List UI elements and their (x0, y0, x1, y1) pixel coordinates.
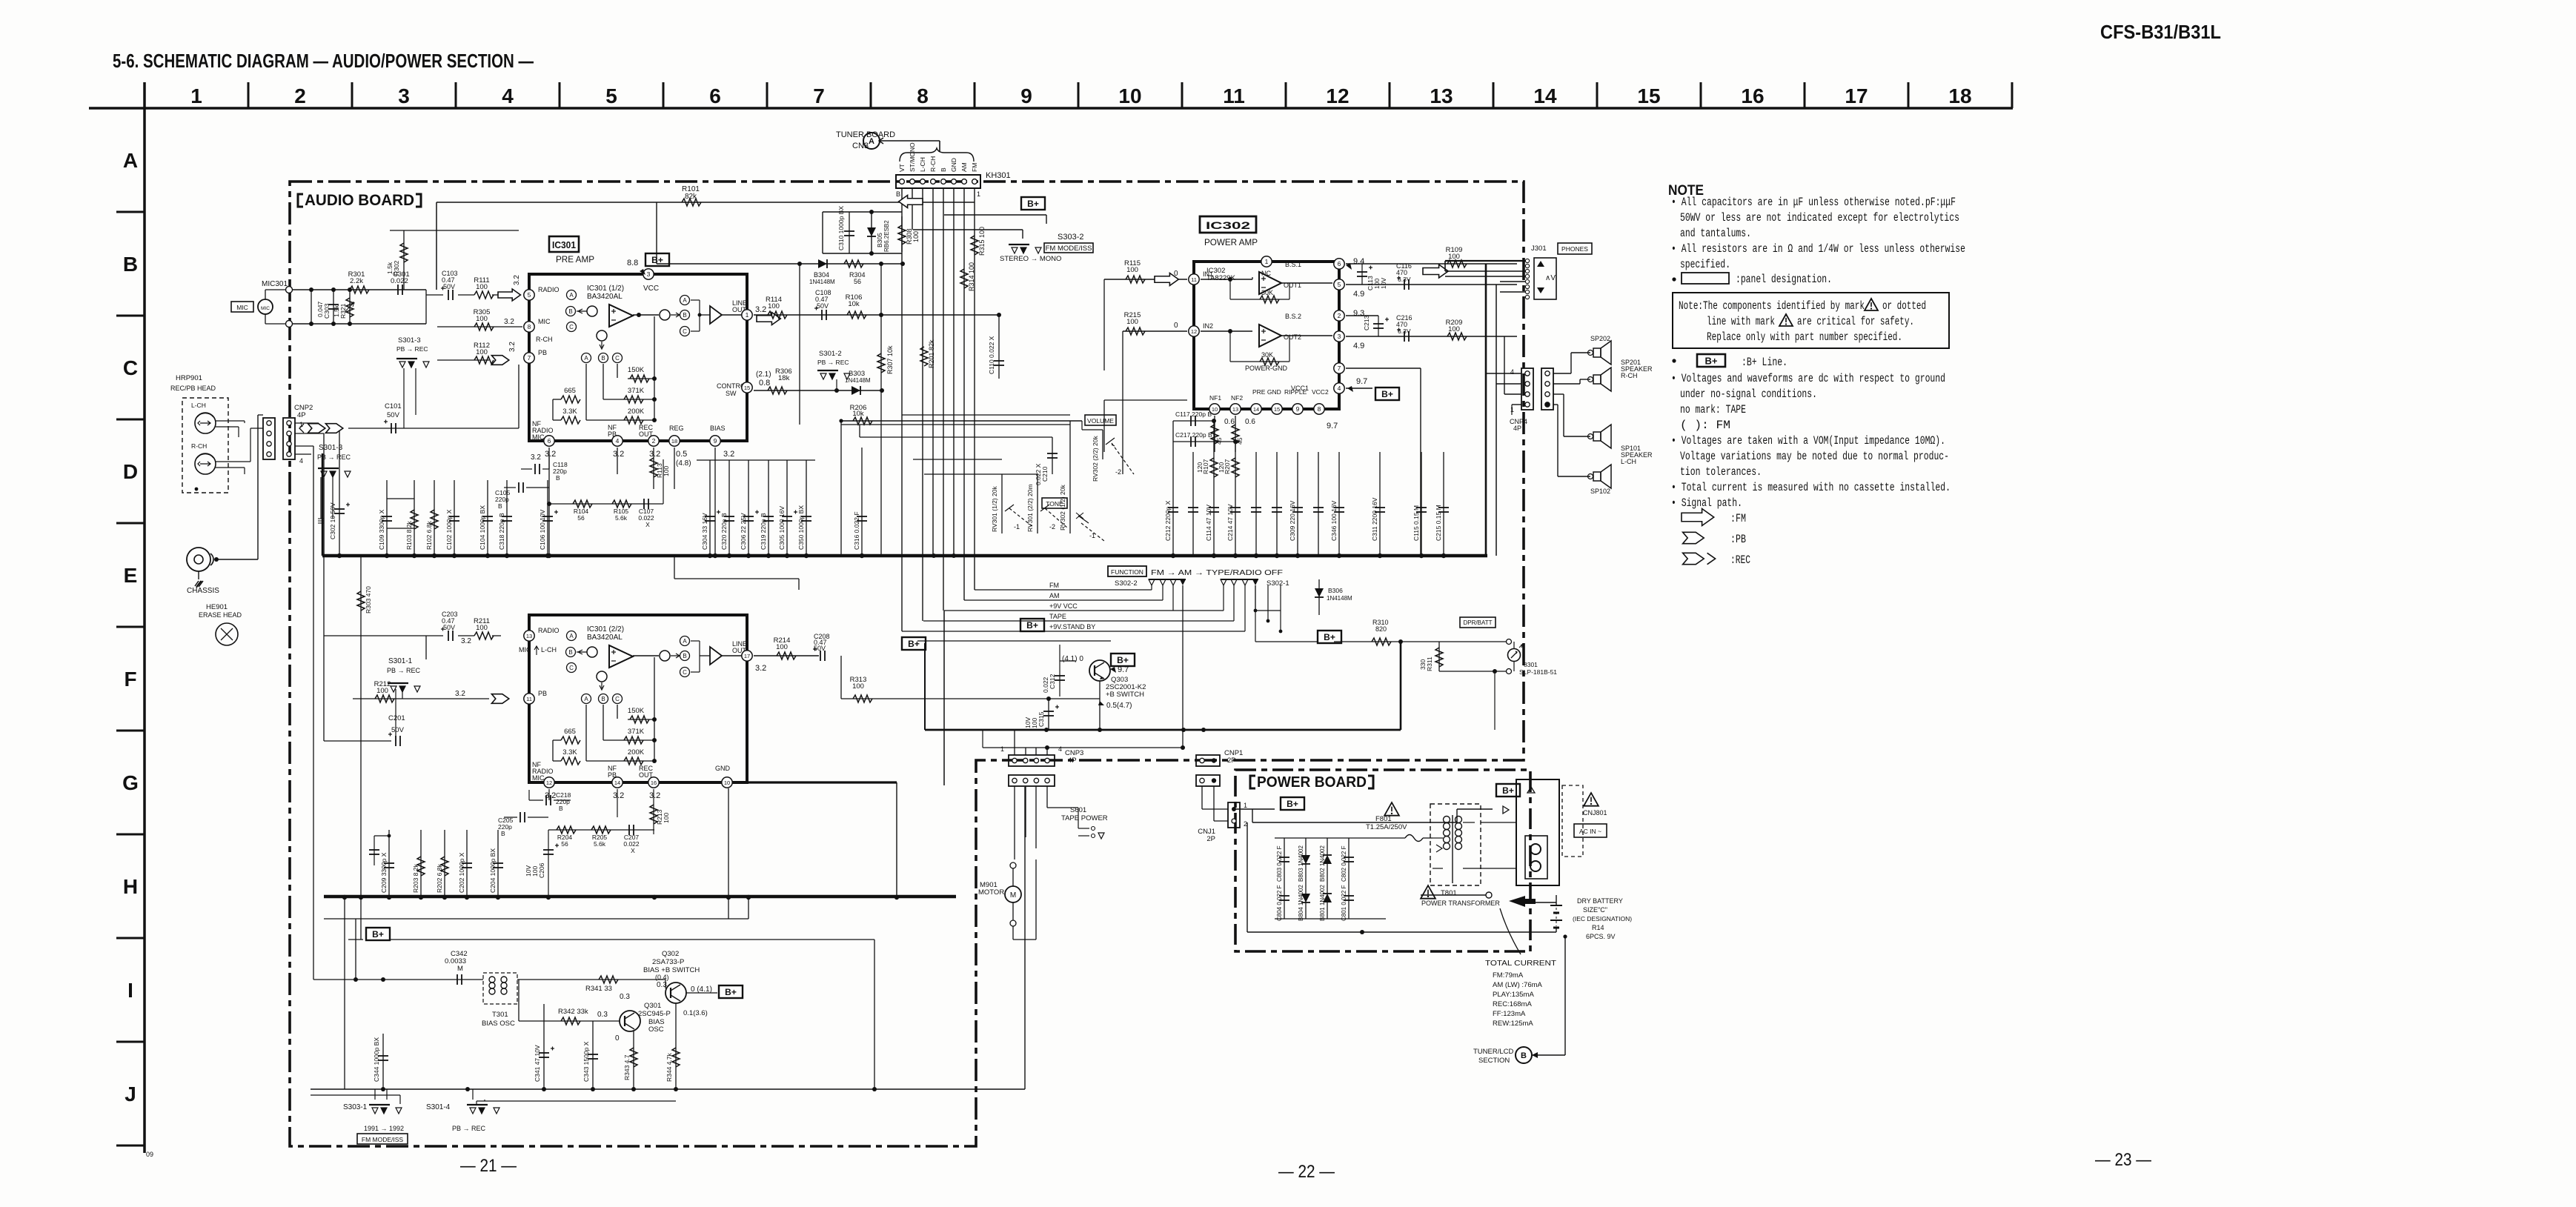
svg-text:1N4148M: 1N4148M (1327, 595, 1352, 602)
svg-text:0.8: 0.8 (759, 379, 770, 388)
svg-text:(4.1) 0: (4.1) 0 (1062, 655, 1083, 663)
svg-text:CFS-B31/B31L: CFS-B31/B31L (2100, 21, 2221, 43)
svg-text:B304: B304 (814, 271, 829, 279)
svg-text:3: 3 (398, 84, 410, 107)
svg-text:10V: 10V (1380, 278, 1387, 289)
svg-text:A: A (123, 149, 138, 172)
transistor Q303 (1089, 660, 1110, 681)
svg-text:4.9: 4.9 (1353, 290, 1364, 299)
svg-text:100: 100 (1126, 266, 1138, 274)
svg-text:100: 100 (476, 315, 488, 323)
svg-text:L-CH: L-CH (1621, 458, 1636, 465)
svg-text:11: 11 (1191, 276, 1197, 283)
svg-text:R307 10k: R307 10k (886, 345, 894, 374)
resistor R321 (349, 290, 351, 324)
svg-text:FUNCTION: FUNCTION (1111, 568, 1143, 576)
svg-text:are critical for safety.: are critical for safety. (1797, 315, 1914, 328)
node A circle (863, 133, 880, 149)
svg-text:X: X (645, 521, 650, 528)
svg-text:50V: 50V (817, 302, 829, 310)
svg-text:no mark: TAPE: no mark: TAPE (1680, 403, 1746, 416)
svg-text:C: C (615, 355, 620, 362)
note safety box (1673, 293, 1949, 348)
svg-text:0.022: 0.022 (1042, 676, 1049, 693)
audio board dash-dot outline (290, 182, 1524, 1146)
KH301 wire bundle (943, 611, 945, 785)
svg-text:0.047: 0.047 (316, 301, 324, 317)
op-amp triangle IC301a (609, 305, 633, 327)
svg-text:820: 820 (1375, 625, 1387, 633)
svg-text::panel designation.: :panel designation. (1736, 273, 1832, 286)
svg-text:C346 100 16V: C346 100 16V (1330, 500, 1338, 541)
svg-text:0.5: 0.5 (676, 450, 687, 459)
diode B304 (818, 259, 827, 268)
switch risers (374, 1089, 376, 1100)
svg-text:Voltage variations may be note: Voltage variations may be noted due to n… (1680, 450, 1949, 463)
svg-text:1: 1 (190, 84, 202, 107)
svg-text:REW:125mA: REW:125mA (1493, 1020, 1533, 1028)
resistor R301 (350, 286, 369, 293)
svg-text:56: 56 (854, 278, 861, 285)
svg-text:Q302: Q302 (662, 950, 679, 958)
svg-text:IN1: IN1 (1203, 270, 1213, 278)
svg-text:0.6: 0.6 (1224, 418, 1235, 426)
svg-text:PB → REC: PB → REC (817, 359, 849, 366)
capacitor C213 (1373, 323, 1384, 325)
warning mark 2 in safety box (1779, 314, 1793, 326)
FM arrow into preamp (899, 196, 923, 208)
resistor R211 (474, 632, 494, 639)
FM arrow out1 (1423, 265, 1448, 278)
svg-text:45: 45 (1215, 437, 1223, 445)
svg-text:B+: B+ (372, 929, 384, 940)
svg-text:3.2: 3.2 (613, 450, 624, 459)
svg-text:4: 4 (1510, 368, 1514, 376)
svg-text:B+: B+ (908, 639, 920, 649)
preamp1 output junction (660, 310, 670, 320)
svg-text:9.4: 9.4 (1353, 257, 1364, 266)
wire preamp1 pins to bus (548, 448, 550, 556)
left vertical wires lower (344, 897, 345, 1089)
pin 11 IN1 (1189, 274, 1199, 285)
svg-text:3.2: 3.2 (455, 690, 465, 698)
buffer triangle IC301a (710, 306, 722, 324)
CNJ801 dashed outline (1562, 785, 1583, 857)
speaker SP201 R-CH (1593, 375, 1601, 384)
resistor R206 (841, 420, 1082, 422)
svg-text:C305 1000 16V: C305 1000 16V (778, 506, 786, 550)
svg-text:18: 18 (671, 438, 677, 445)
svg-text:B+: B+ (651, 255, 663, 265)
IC301 label box (549, 236, 579, 252)
svg-text::B+ Line.: :B+ Line. (1742, 356, 1787, 369)
capacitor C301 (397, 285, 399, 295)
battery symbol (1550, 905, 1562, 906)
svg-text:5: 5 (1338, 281, 1341, 288)
preamp1 node B (566, 307, 576, 316)
svg-text:7: 7 (528, 354, 531, 362)
feedback resistor 150K b (628, 719, 654, 720)
svg-text:18k: 18k (778, 374, 790, 382)
svg-text:BA3420AL: BA3420AL (587, 293, 623, 301)
resistor R215 (1123, 330, 1187, 332)
svg-text:2: 2 (652, 437, 656, 445)
grid row ticks (116, 108, 145, 1146)
svg-text:C114 47 10V: C114 47 10V (1205, 505, 1212, 541)
warning T801 (1421, 885, 1435, 899)
svg-text:0.1(3.6): 0.1(3.6) (683, 1009, 708, 1017)
capacitor C315 (1048, 699, 1049, 730)
svg-text:L-CH: L-CH (919, 157, 926, 172)
resistor network R104 R105 C107 (549, 503, 663, 505)
svg-text:A: A (569, 292, 574, 299)
svg-text:C214 47 10V: C214 47 10V (1226, 504, 1234, 541)
svg-text:B: B (568, 649, 572, 656)
pin 8 MIC (524, 322, 534, 332)
resistor R106 (754, 314, 999, 316)
svg-text::PB: :PB (1730, 533, 1746, 546)
svg-text:2P: 2P (1206, 835, 1215, 843)
svg-text:SW: SW (726, 390, 737, 397)
svg-text:C204 1000p BX: C204 1000p BX (489, 848, 497, 893)
svg-text:E: E (124, 564, 138, 587)
svg-text:3: 3 (1338, 333, 1341, 340)
wire R101 line (436, 202, 975, 203)
function label box (1108, 566, 1146, 576)
svg-text:1N4148M: 1N4148M (845, 377, 871, 384)
30K resistor 2 (1229, 331, 1231, 362)
svg-text:S302-2: S302-2 (1115, 579, 1138, 588)
wire Q302 out (686, 992, 717, 994)
capacitor C108 (821, 310, 823, 320)
svg-text:C803 0.022 F: C803 0.022 F (1276, 845, 1283, 882)
svg-text:100: 100 (476, 348, 488, 356)
resistor R115 (1104, 279, 1187, 280)
preamp2 R204 R205 C207 row (548, 829, 654, 831)
svg-text:F801: F801 (1375, 815, 1392, 823)
resistor R112 (437, 359, 489, 361)
power board B+ wire (1234, 808, 1275, 810)
svg-text:RV301 (1/2) 20k: RV301 (1/2) 20k (991, 486, 998, 532)
capacitor C343 (592, 1021, 594, 1089)
svg-text:2SA733-P: 2SA733-P (652, 958, 684, 966)
battery feed arrow (1509, 896, 1536, 907)
bridge rectifier diodes (1275, 837, 1386, 839)
capacitor bank IC302 (1172, 452, 1174, 556)
svg-text:B305: B305 (876, 233, 883, 247)
svg-text:C341 47 10V: C341 47 10V (534, 1045, 541, 1082)
svg-text:120: 120 (1196, 462, 1204, 473)
svg-text:9: 9 (1020, 84, 1032, 107)
svg-text:-2: -2 (1049, 523, 1055, 531)
capacitor C316 (861, 448, 863, 556)
wire vertical from R101 to mic line (436, 202, 437, 290)
svg-text:12: 12 (1191, 328, 1197, 335)
svg-text:C315: C315 (1038, 711, 1045, 727)
svg-text:100: 100 (1126, 318, 1138, 326)
power board label (1250, 776, 1373, 788)
pin 12 IN2 (1189, 326, 1199, 336)
svg-text:C311 2200 16V: C311 2200 16V (1371, 497, 1378, 541)
connector CNJ1 (1228, 802, 1240, 828)
svg-text:IC301 (2/2): IC301 (2/2) (587, 625, 624, 634)
warning mark F801 (1384, 802, 1399, 816)
preamp2 out ABC (680, 636, 690, 646)
svg-text:B+: B+ (1324, 632, 1335, 642)
wires CNP1 to CNJ1 (1201, 786, 1203, 809)
svg-text:B: B (683, 312, 686, 319)
svg-text:3: 3 (647, 270, 651, 278)
svg-text:50WV or less are not indicated: 50WV or less are not indicated except fo… (1680, 211, 1959, 225)
svg-text:8: 8 (917, 84, 929, 107)
svg-text:specified.: specified. (1680, 258, 1730, 271)
svg-text:100: 100 (912, 231, 920, 242)
resistor R304 (657, 263, 903, 265)
svg-text:+9V.STAND BY: +9V.STAND BY (1049, 623, 1095, 631)
svg-text:R314 100: R314 100 (968, 262, 975, 291)
svg-text:4: 4 (1338, 385, 1341, 392)
connector CNP2 (263, 418, 275, 459)
capacitor bank preamp1 (386, 480, 388, 556)
B+ box power board (1281, 797, 1304, 810)
svg-text:371K: 371K (628, 387, 645, 395)
svg-text:C344 1000p BX: C344 1000p BX (373, 1037, 380, 1082)
svg-text:100: 100 (376, 687, 388, 695)
svg-text:-1: -1 (1089, 532, 1095, 539)
svg-text:C303: C303 (323, 303, 331, 319)
svg-text:665: 665 (564, 387, 576, 395)
svg-text:9.7: 9.7 (1327, 422, 1338, 430)
svg-text:C802 0.022 F: C802 0.022 F (1341, 845, 1347, 882)
svg-text:• Voltages and waveforms are d: • Voltages and waveforms are dc with res… (1671, 372, 1945, 385)
svg-text:-1: -1 (1014, 523, 1020, 531)
svg-text:82k: 82k (685, 193, 697, 201)
preamp2 node B (566, 648, 576, 657)
svg-text:C316 0.022 F: C316 0.022 F (853, 511, 860, 550)
svg-text:PHONES: PHONES (1561, 245, 1588, 253)
svg-text:100: 100 (531, 866, 539, 877)
wire VCC1 B+ (1346, 388, 1372, 389)
feedback resistor 371K b (603, 739, 654, 741)
svg-text:C109 3300p X: C109 3300p X (378, 509, 385, 550)
svg-text:PRE AMP: PRE AMP (556, 254, 594, 265)
preamp1 out ABC (680, 296, 690, 305)
svg-text:2.2k: 2.2k (350, 277, 363, 285)
PB arrow preamp2 (491, 694, 508, 704)
opamp2 output drop wire (654, 657, 655, 761)
svg-text:PB → REC: PB → REC (387, 667, 421, 674)
resistor R341 (517, 979, 665, 980)
total current arc (1500, 908, 1521, 954)
svg-text:R-CH: R-CH (929, 156, 937, 172)
preamp2 output junction (660, 651, 670, 661)
svg-text:REC/PB HEAD: REC/PB HEAD (170, 385, 216, 392)
svg-text:1: 1 (1244, 802, 1247, 809)
svg-text:FM MODE/ISS: FM MODE/ISS (1046, 245, 1092, 253)
svg-text:FM: FM (1049, 582, 1059, 589)
chassis jack (187, 548, 210, 571)
svg-text:RIPPLE: RIPPLE (1284, 388, 1307, 396)
svg-text:A: A (584, 696, 588, 702)
B+ box power right (1496, 784, 1520, 797)
svg-text:C: C (569, 324, 574, 330)
svg-text:5: 5 (528, 291, 531, 299)
svg-text:GND: GND (715, 765, 731, 772)
svg-text:10k: 10k (852, 410, 864, 418)
connector CNP4 (1521, 368, 1533, 410)
svg-text:100: 100 (852, 682, 864, 691)
capacitor C101 (348, 428, 519, 429)
svg-text:• Voltages are taken with a VO: • Voltages are taken with a VOM(Input im… (1671, 434, 1945, 448)
svg-text:56: 56 (577, 514, 585, 522)
note FM arrow symbol (1682, 509, 1714, 526)
grid row letters (122, 149, 139, 1105)
svg-text:3.2: 3.2 (755, 664, 766, 673)
grid column ticks (145, 82, 2012, 108)
svg-text:C206: C206 (538, 862, 545, 878)
audio board label (298, 194, 421, 207)
resistor R201 (920, 347, 928, 366)
svg-text:4P: 4P (1068, 757, 1077, 765)
wire S301-3 risers (320, 477, 322, 519)
svg-text:Replace only with part number: Replace only with part number specified. (1707, 330, 1902, 344)
DPM BATT box (1460, 617, 1496, 628)
resistor R314 (960, 269, 968, 288)
wire OUT2 line (1346, 336, 1517, 337)
svg-text:SP102: SP102 (1590, 488, 1610, 495)
svg-text:10: 10 (1212, 406, 1218, 413)
svg-text:• All capacitors are in μF unl: • All capacitors are in μF unless otherw… (1671, 196, 1956, 209)
svg-text:B: B (501, 830, 505, 837)
svg-text:0.5(4.7): 0.5(4.7) (1106, 702, 1132, 710)
resistor R303 column (360, 556, 362, 940)
svg-text:3.2: 3.2 (755, 305, 766, 314)
svg-text:B: B (1521, 1051, 1527, 1060)
svg-text:7: 7 (1338, 365, 1341, 372)
svg-text:AC IN ~: AC IN ~ (1579, 828, 1601, 835)
capacitor C113 (1361, 264, 1363, 285)
pin 1 NC (1261, 256, 1272, 267)
svg-text:R344 4.7k: R344 4.7k (665, 1053, 673, 1082)
svg-text:C319 220p B: C319 220p B (760, 513, 767, 550)
resistor R313 (840, 656, 842, 699)
svg-text:TOTAL CURRENT: TOTAL CURRENT (1485, 959, 1557, 968)
svg-text:I: I (127, 979, 133, 1002)
svg-text:S301-2: S301-2 (819, 350, 842, 358)
svg-text:6: 6 (548, 437, 551, 445)
svg-text:M: M (457, 965, 463, 973)
wire kh301 crossing horizontals (902, 414, 1070, 416)
svg-text:MIC: MIC (236, 304, 248, 311)
svg-text:B: B (683, 653, 686, 659)
svg-text:SP202: SP202 (1590, 335, 1610, 342)
wire ST/MONO to S303-2 (913, 229, 1023, 230)
svg-text:R103 8.2k: R103 8.2k (405, 521, 413, 550)
warning CNJ801 (1584, 793, 1599, 806)
preamp2 ABC row (582, 694, 591, 704)
svg-text:VT: VT (898, 164, 906, 172)
svg-text:12: 12 (546, 779, 552, 786)
svg-text:AM: AM (1049, 592, 1060, 599)
svg-text:and tantalums.: and tantalums. (1680, 227, 1751, 240)
svg-text:SLP-181B-51: SLP-181B-51 (1519, 668, 1557, 676)
resistor R114 (768, 311, 787, 319)
feedback resistor 3.3K (561, 416, 580, 424)
phones jack wires (1445, 260, 1525, 262)
svg-text:C217 220p B: C217 220p B (1175, 431, 1212, 439)
svg-text:C310 1000p BX: C310 1000p BX (837, 206, 845, 250)
svg-text:M: M (1010, 891, 1016, 900)
svg-text:-2: -2 (1115, 468, 1121, 476)
svg-text:B+: B+ (1502, 785, 1514, 796)
svg-text:RADIO: RADIO (538, 286, 560, 293)
B+ box mid-left (902, 637, 926, 650)
svg-text:A: A (584, 355, 588, 362)
pin 13 RADIO (524, 631, 534, 641)
svg-text:under no-signal conditions.: under no-signal conditions. (1680, 388, 1817, 401)
pot RV302 2/2 (1102, 430, 1103, 459)
svg-text:S301-1: S301-1 (388, 657, 413, 665)
PB arrow preamp in (491, 356, 508, 365)
wire link row 1009 (983, 747, 1184, 748)
svg-text:100: 100 (1448, 253, 1460, 261)
wire BS2 line (1346, 315, 1378, 316)
wire node 1079 vertical (799, 264, 800, 425)
B+ box top (1021, 197, 1045, 210)
wire B+ drop (944, 214, 1046, 216)
capacitor C310 (823, 211, 902, 213)
svg-text:— 21 —: — 21 — (460, 1156, 517, 1176)
svg-text:2: 2 (1244, 820, 1247, 828)
svg-text:T301: T301 (492, 1011, 508, 1019)
wire reg bus 2 (728, 788, 729, 919)
pin 3 VCC (643, 269, 654, 279)
svg-text:3.2: 3.2 (461, 637, 471, 645)
svg-text:C801 0.022 F: C801 0.022 F (1341, 885, 1347, 921)
svg-text:R315 100: R315 100 (978, 227, 986, 256)
feedback resistor 665 (561, 396, 580, 403)
pot RV302 1/2 (1069, 421, 1071, 533)
svg-text:ERASE HEAD: ERASE HEAD (199, 611, 242, 619)
svg-text:HE901: HE901 (206, 603, 228, 611)
svg-text:F: F (124, 668, 136, 691)
svg-text:1.5k: 1.5k (333, 305, 340, 317)
svg-text:4P: 4P (1513, 425, 1521, 432)
wire volume feed (841, 424, 1070, 425)
svg-text:D: D (123, 460, 138, 483)
svg-text:MIC: MIC (519, 646, 531, 654)
capacitor C216 (1404, 331, 1405, 342)
mic wires (293, 289, 426, 290)
svg-text:IC301 (1/2): IC301 (1/2) (587, 285, 624, 293)
svg-text:C306 22 25V: C306 22 25V (740, 513, 747, 550)
svg-text:BA3420AL: BA3420AL (587, 634, 623, 642)
svg-text:VCC2: VCC2 (1312, 388, 1329, 396)
svg-text:B801 1N4002: B801 1N4002 (1319, 885, 1326, 921)
svg-text:STEREO → MONO: STEREO → MONO (1000, 255, 1061, 263)
second ground bus (324, 895, 956, 899)
svg-text:C202 1000p X: C202 1000p X (458, 852, 465, 893)
preamp1 input junction (587, 306, 597, 316)
svg-text:MOTOR: MOTOR (978, 888, 1004, 897)
svg-text:09: 09 (146, 1151, 153, 1158)
svg-text:RV302 (2/2) 20k: RV302 (2/2) 20k (1092, 436, 1099, 482)
svg-text:J301: J301 (1531, 245, 1547, 253)
svg-text:B+: B+ (1381, 389, 1393, 399)
svg-text:10V: 10V (525, 865, 532, 877)
svg-text:C: C (123, 356, 138, 379)
svg-text:B: B (123, 253, 138, 276)
